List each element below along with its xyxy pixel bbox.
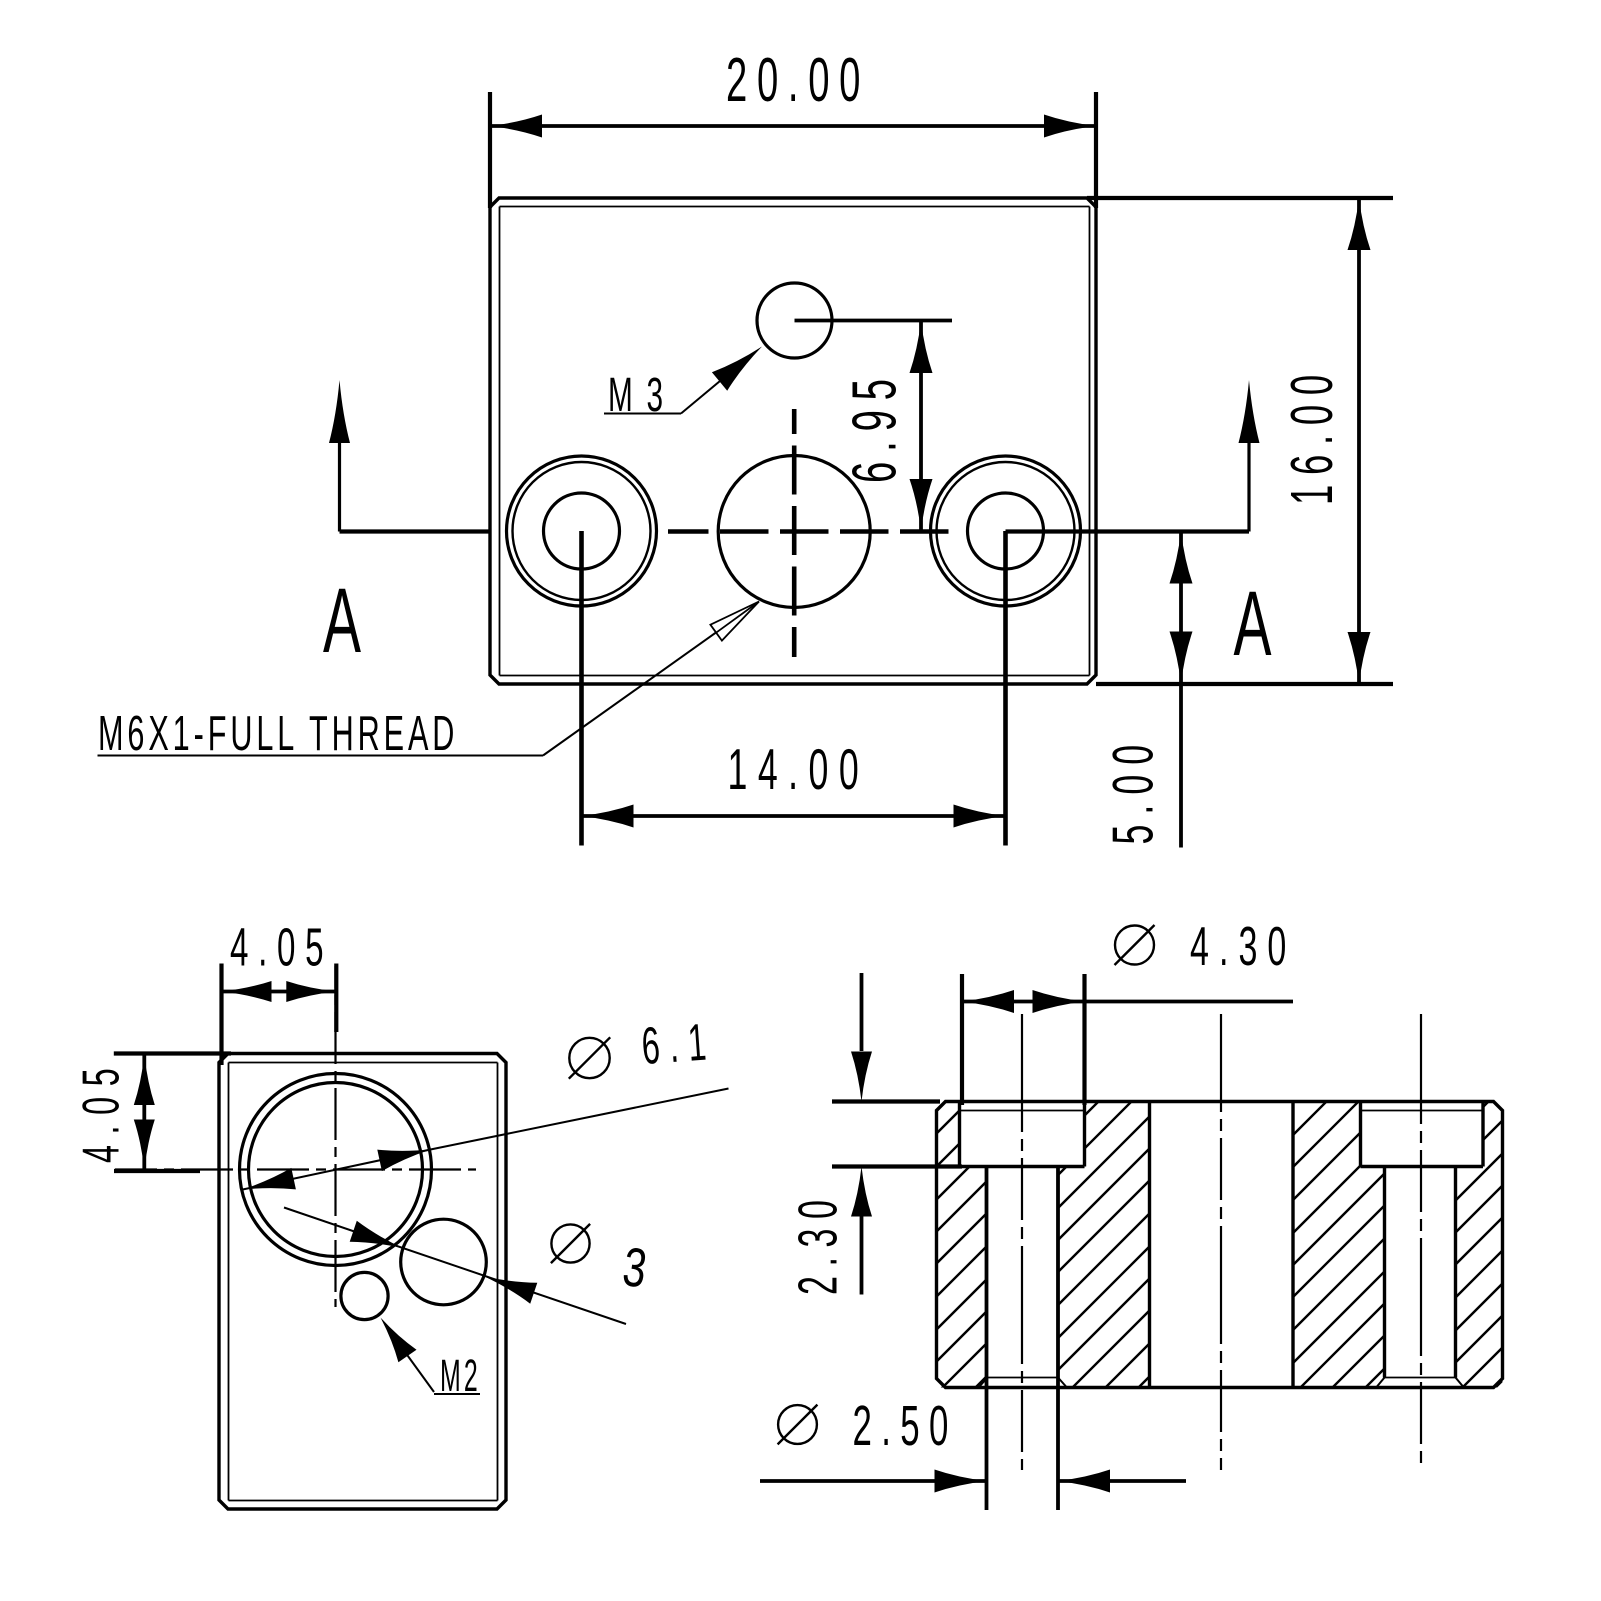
svg-text:5.00: 5.00 (1102, 735, 1166, 845)
svg-text:M6X1-FULL THREAD: M6X1-FULL THREAD (98, 706, 458, 761)
svg-text:2.30: 2.30 (787, 1191, 848, 1295)
svg-text:4.05: 4.05 (230, 919, 333, 978)
svg-text:2.50: 2.50 (853, 1395, 958, 1458)
svg-text:A: A (323, 570, 361, 672)
svg-text:20.00: 20.00 (726, 46, 870, 115)
svg-text:6.1: 6.1 (640, 1013, 718, 1076)
svg-text:A: A (1234, 573, 1272, 675)
svg-text:6.95: 6.95 (840, 369, 909, 483)
svg-text:4.05: 4.05 (73, 1058, 131, 1163)
svg-text:16.00: 16.00 (1280, 365, 1345, 505)
svg-text:4.30: 4.30 (1190, 916, 1296, 977)
svg-text:14.00: 14.00 (728, 739, 870, 803)
